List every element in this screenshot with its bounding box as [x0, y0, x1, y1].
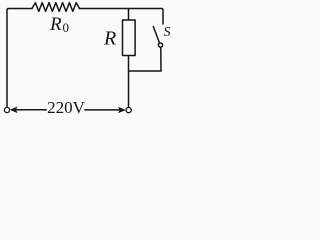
wire below R to terminal	[128, 56, 130, 108]
svg-text:220V: 220V	[47, 98, 86, 117]
wire 220V right arrow shaft	[85, 109, 120, 111]
svg-text:S: S	[164, 25, 171, 40]
resistor R body	[123, 20, 136, 56]
svg-text:R: R	[103, 27, 116, 49]
wire top left to resistor R0	[9, 8, 33, 10]
terminal node right	[126, 108, 131, 113]
resistor R0	[32, 3, 80, 12]
wire bottom of parallel section	[129, 70, 162, 72]
switch S blade	[153, 27, 159, 44]
wire below switch	[160, 47, 162, 71]
terminal node left	[4, 107, 9, 112]
wire 220V left arrow shaft	[17, 109, 47, 111]
wire top branch to R	[128, 9, 130, 21]
svg-text:R: R	[49, 14, 62, 35]
arrowhead right	[118, 107, 126, 114]
wire right drop to switch	[162, 9, 164, 25]
switch S bottom contact	[158, 43, 162, 47]
arrowhead left	[10, 107, 18, 114]
svg-text:0: 0	[63, 20, 70, 35]
wire top middle	[80, 8, 162, 10]
wire left side	[7, 9, 9, 108]
